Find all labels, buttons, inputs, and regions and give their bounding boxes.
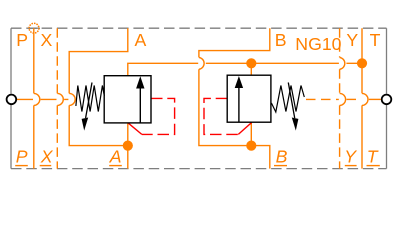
svg-text:B: B	[275, 30, 287, 50]
svg-text:X: X	[40, 147, 54, 167]
svg-text:T: T	[367, 147, 379, 167]
svg-text:A: A	[109, 147, 122, 167]
svg-text:NG10: NG10	[295, 34, 341, 54]
svg-text:P: P	[16, 30, 28, 50]
svg-text:T: T	[370, 30, 381, 50]
svg-text:B: B	[276, 147, 288, 167]
svg-text:P: P	[16, 147, 28, 167]
svg-text:Y: Y	[344, 147, 357, 167]
svg-text:Y: Y	[346, 30, 358, 50]
svg-text:X: X	[41, 30, 53, 50]
svg-text:A: A	[135, 30, 147, 50]
